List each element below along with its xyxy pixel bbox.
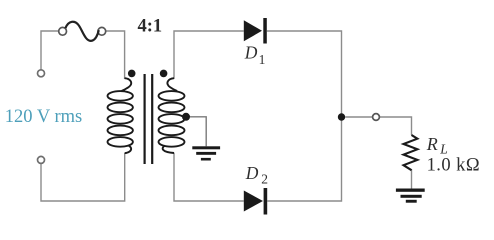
svg-text:1.0 kΩ: 1.0 kΩ [427, 155, 480, 175]
svg-text:R: R [426, 134, 438, 154]
svg-text:1: 1 [259, 52, 266, 67]
svg-text:4:1: 4:1 [138, 16, 163, 36]
svg-text:D: D [245, 163, 259, 183]
svg-text:L: L [439, 141, 448, 156]
svg-text:120 V rms: 120 V rms [5, 107, 82, 127]
svg-text:D: D [244, 43, 258, 63]
svg-text:2: 2 [261, 172, 268, 187]
